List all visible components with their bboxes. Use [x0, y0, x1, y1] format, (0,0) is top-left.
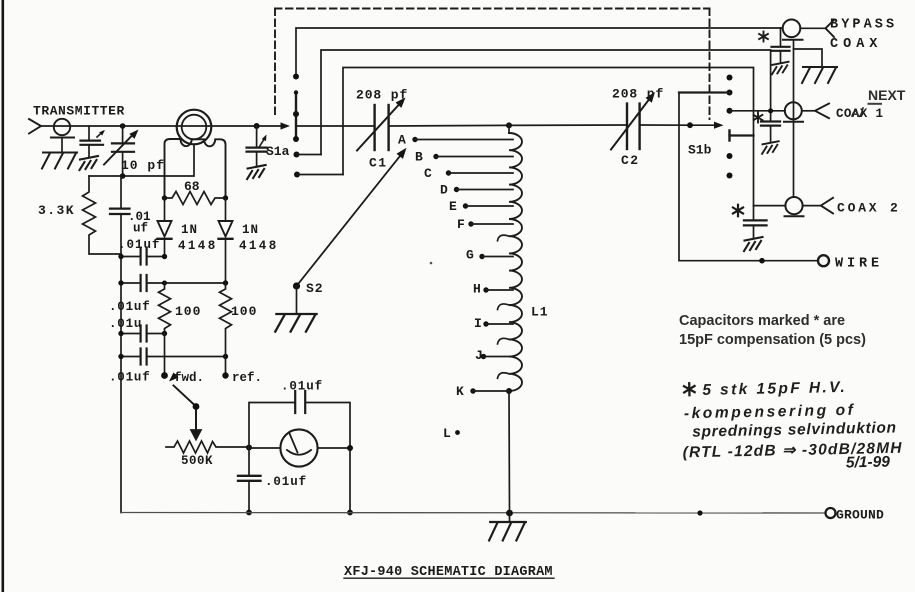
svg-text:NEXT: NEXT	[868, 87, 906, 103]
svg-text:5 stk 15pF H.V.: 5 stk 15pF H.V.	[702, 379, 847, 399]
tap G	[466, 248, 513, 263]
wire bottom ground rail	[121, 512, 826, 515]
diode D1 1N4148	[158, 198, 172, 257]
svg-text:K: K	[456, 384, 464, 399]
capacitor 15pF compensation at COAX2	[744, 206, 767, 239]
capacitor at S1a input (compensation)	[247, 126, 269, 167]
connector BYPASS COAX jack	[783, 20, 803, 40]
node ground rail junction	[697, 510, 702, 515]
wire stub to chassis ground	[509, 513, 511, 522]
svg-text:BYPASS: BYPASS	[830, 18, 897, 33]
node ref	[222, 372, 228, 378]
svg-text:4148: 4148	[239, 239, 279, 253]
node meter bottom left	[246, 510, 252, 516]
resistor 3.3K	[83, 176, 122, 254]
wire meter loop top right	[306, 403, 350, 513]
capacitor C1 208 pf variable	[357, 95, 408, 151]
connector GROUND terminal	[826, 508, 836, 518]
switch S1a rotor bar	[295, 93, 297, 140]
asterisk mark bypass cap	[759, 32, 768, 42]
svg-text:5/1-99: 5/1-99	[846, 454, 891, 472]
svg-text:S1a: S1a	[266, 144, 290, 159]
tap L	[443, 426, 460, 441]
ground under S2	[275, 314, 316, 332]
svg-text:COAX 1: COAX 1	[836, 107, 883, 121]
tap H	[473, 282, 513, 297]
svg-text:68: 68	[184, 179, 200, 194]
node wire line junction	[759, 258, 765, 264]
switch S1b contact 2 to wire frame	[679, 90, 733, 96]
svg-text:4148: 4148	[178, 239, 218, 253]
svg-text:B: B	[415, 150, 423, 165]
node row2 left	[118, 280, 123, 285]
resistor 100 reflected	[220, 283, 232, 357]
connector WIRE terminal	[818, 255, 829, 266]
node S1a rotor dot a	[294, 90, 298, 94]
transformer T1 toroid	[177, 110, 212, 145]
node L1 top junction	[506, 122, 512, 128]
capacitor C2 208 pf variable	[611, 90, 658, 150]
wire left rail down to bottom	[120, 254, 122, 513]
tap A	[398, 133, 513, 148]
tap F	[457, 217, 513, 232]
node junction 10pf tap	[120, 123, 126, 129]
wire S2 to ground	[296, 286, 298, 314]
svg-text:100: 100	[231, 304, 257, 319]
wire C1 to C2	[389, 125, 627, 126]
switch S1b contact 6	[727, 173, 733, 179]
label NEXT handwritten	[868, 87, 906, 104]
scribble over COAX 1	[852, 108, 863, 116]
switch S1b contact 5	[727, 153, 733, 159]
node BYPASS chevron	[800, 20, 834, 37]
svg-text:C1: C1	[369, 156, 388, 171]
switch S1b contact 4 to COAX2 rail	[730, 131, 754, 141]
wire fwd rail	[164, 334, 166, 376]
wire meter loop top left	[249, 403, 295, 448]
switch S1a contact 5	[294, 172, 343, 178]
wire C2 to S1b	[640, 124, 716, 126]
svg-text:.01u: .01u	[109, 317, 142, 331]
svg-text:F: F	[457, 217, 465, 232]
node TRANSMITTER input chevron	[29, 119, 41, 134]
node meter bottom right	[347, 510, 353, 516]
svg-text:500K: 500K	[181, 454, 213, 468]
svg-text:S1b: S1b	[688, 143, 712, 158]
svg-text:10 pf: 10 pf	[121, 158, 165, 173]
svg-text:TRANSMITTER: TRANSMITTER	[33, 104, 125, 119]
capacitor row4 .01uf	[121, 349, 226, 365]
ground chassis below coil	[489, 522, 526, 540]
svg-text:3.3K: 3.3K	[38, 203, 75, 218]
svg-text:-kompensering of: -kompensering of	[684, 402, 856, 423]
switch S1b contact 1	[727, 75, 733, 81]
inductor L1 coil	[509, 133, 522, 391]
node COAX1 chevron	[802, 104, 829, 119]
ground under input bypass cap	[80, 156, 99, 170]
node meter right junction	[347, 445, 353, 451]
switch S1a contact 4	[294, 152, 322, 158]
svg-text:C: C	[424, 166, 432, 181]
tap I	[474, 316, 513, 331]
node 500K wiper pivot	[193, 403, 200, 410]
node row2 right	[223, 280, 228, 285]
tap E	[449, 199, 513, 214]
wire bypass shell to ground	[794, 40, 823, 67]
tap B	[415, 150, 513, 165]
diode D2 1N4148	[219, 198, 233, 283]
svg-text:208 pf: 208 pf	[612, 87, 664, 102]
svg-text:E: E	[449, 199, 457, 214]
wire main input line	[41, 125, 283, 127]
wire bus to COAX 1 compensation node	[321, 50, 771, 155]
node compensation junction COAX1	[768, 108, 773, 113]
node meter left junction	[246, 445, 252, 451]
ground under coax1 cap	[762, 141, 779, 154]
capacitor 10 pf variable	[104, 126, 141, 176]
wire frame rail to WIRE terminal	[679, 93, 818, 261]
wire ref rail	[225, 357, 227, 376]
node row3 left	[118, 331, 123, 336]
tap D	[440, 183, 513, 198]
tap C	[424, 166, 513, 181]
ground under bypass cap	[772, 62, 789, 75]
svg-text:.01uf: .01uf	[109, 300, 151, 314]
svg-text:.01uf: .01uf	[118, 238, 161, 252]
resistor 100 forward	[159, 283, 171, 334]
node S1b pole junction	[687, 122, 693, 128]
svg-text:.01uf: .01uf	[281, 380, 323, 394]
resistor 500K	[166, 441, 249, 453]
node row2 mid	[162, 281, 167, 286]
svg-text:I: I	[474, 316, 482, 331]
svg-text:COAX 2: COAX 2	[837, 201, 901, 216]
svg-text:.01uf: .01uf	[109, 371, 151, 385]
node L1 bottom junction	[506, 388, 512, 394]
ground under transmitter jack	[42, 153, 77, 169]
svg-text:fwd.: fwd.	[174, 371, 204, 385]
svg-text:1N: 1N	[181, 223, 198, 237]
inductor L1 turn hooks	[498, 235, 510, 378]
node junction at 10pf bottom	[120, 173, 126, 179]
node COAX2 chevron	[803, 198, 833, 214]
wire T1 center tap	[89, 144, 194, 176]
wire S1a to C1	[296, 125, 374, 127]
svg-text:G: G	[466, 248, 474, 263]
svg-text:208 pf: 208 pf	[356, 88, 408, 103]
transformer T1 secondary winding	[165, 139, 226, 198]
svg-text:WIRE: WIRE	[835, 257, 883, 272]
note handwritten block	[681, 378, 903, 475]
node row1 left	[118, 254, 123, 259]
capacitor .01uf across 3.3K	[110, 176, 130, 254]
svg-text:L1: L1	[531, 305, 549, 320]
tap J	[475, 348, 513, 363]
node S2 pivot	[293, 282, 300, 289]
wire dashed bypass bus top	[275, 9, 710, 120]
svg-text:ref.: ref.	[232, 371, 262, 385]
ground under coax2 cap	[744, 237, 763, 251]
speck artifact	[430, 262, 433, 265]
node S1a rotor dot b	[293, 111, 299, 117]
capacitor 15pF compensation at COAX1	[761, 122, 780, 143]
ground bypass shell	[802, 67, 837, 83]
switch S1a contact 1	[293, 74, 299, 80]
switch S2 lever to coil tap	[297, 156, 401, 286]
capacitor 15pF compensation at BYPASS	[772, 28, 790, 63]
svg-text:S2: S2	[306, 281, 324, 296]
resistor 68	[165, 192, 226, 205]
switch S2 arrowhead	[396, 145, 409, 159]
tap K	[456, 384, 509, 399]
svg-text:L: L	[443, 426, 451, 441]
svg-text:A: A	[398, 133, 406, 148]
capacitor row3 .01uf	[121, 326, 165, 342]
meter M1	[280, 429, 317, 466]
svg-text:sprednings selvinduktion: sprednings selvinduktion	[692, 419, 897, 440]
node S1a shunt cap junction	[254, 123, 260, 129]
wire COAX2 line	[754, 205, 786, 207]
node coil bottom ground junction	[506, 510, 513, 517]
wire meter horizontal right	[318, 447, 350, 449]
wire L1 bottom to ground rail	[508, 391, 511, 513]
wire bus to COAX 2 rail	[343, 68, 754, 206]
wire bus to BYPASS COAX	[296, 28, 783, 77]
capacitor .01uf meter shunt	[238, 448, 261, 513]
svg-text:C2: C2	[621, 153, 640, 168]
connector COAX 1 jack	[784, 102, 803, 122]
node row3 right	[162, 331, 167, 336]
label title XFJ-940 SCHEMATIC DIAGRAM	[344, 565, 554, 580]
svg-text:uf: uf	[133, 222, 148, 236]
capacitor input bypass	[81, 126, 107, 158]
node 68 right junction	[223, 195, 228, 200]
ground under S1a cap	[247, 165, 266, 179]
capacitor .01uf meter top	[295, 391, 305, 413]
svg-text:15pF compensation (5 pcs): 15pF compensation (5 pcs)	[679, 332, 866, 348]
node row1 right	[162, 254, 167, 259]
node 68 left junction	[162, 195, 167, 200]
node S1a rotor dot c	[293, 136, 299, 142]
svg-text:H: H	[473, 282, 481, 297]
asterisk mark coax2 cap	[733, 205, 743, 217]
switch S1b contact 3 to COAX1	[727, 108, 786, 114]
wire arrow into S1b pole	[714, 122, 724, 129]
svg-text:1N: 1N	[242, 223, 259, 237]
wire connector shell bus vertical	[793, 49, 795, 197]
connector COAX 2 jack	[785, 197, 804, 216]
potentiometer R 500K wiper arrows	[167, 372, 201, 439]
asterisk mark coax1 cap	[754, 113, 763, 123]
node row4 left	[118, 354, 123, 359]
capacitor row1 .01uf	[121, 249, 165, 265]
svg-text:100: 100	[175, 304, 201, 319]
svg-text:.01uf: .01uf	[265, 475, 307, 489]
svg-text:Capacitors marked * are: Capacitors marked * are	[679, 313, 845, 329]
wire meter horizontal left	[249, 447, 280, 449]
wire L1 feed	[508, 125, 510, 133]
node row4 right	[223, 354, 228, 359]
svg-text:COAX: COAX	[830, 37, 882, 52]
svg-text:D: D	[440, 183, 448, 198]
wire arrow into S1a pole	[281, 122, 291, 129]
svg-text:GROUND: GROUND	[836, 508, 884, 523]
capacitor row2 .01uf	[121, 275, 226, 291]
node fwd	[161, 372, 168, 379]
connector J1 transmitter jack	[51, 119, 74, 152]
